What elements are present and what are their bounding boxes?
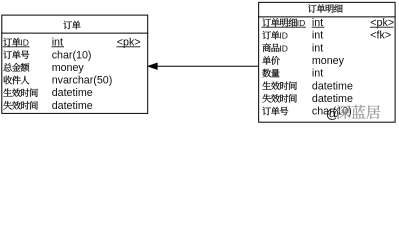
column row 订单ID int <pk> xyxy=(3,38,20,47)
svg-text:ID: ID xyxy=(20,38,29,48)
reference arrow line (订单明细 to 订单) xyxy=(150,65,259,67)
column row 生效时间 datetime xyxy=(3,88,37,97)
column row 失效时间 datetime xyxy=(3,101,37,110)
column row 订单号 char(10) xyxy=(262,107,288,116)
svg-text:datetime: datetime xyxy=(52,100,93,112)
svg-text:int: int xyxy=(312,30,323,42)
table 订单明细 (OrderDetail) outer border xyxy=(259,2,395,122)
column row 单价 money xyxy=(262,56,279,65)
svg-text:ID: ID xyxy=(279,43,288,53)
svg-text:int: int xyxy=(312,68,323,80)
column row 订单号 char(10) xyxy=(3,50,29,59)
table 订单明细 header separator line xyxy=(258,16,395,18)
svg-text:int: int xyxy=(312,42,323,54)
svg-text:ID: ID xyxy=(297,18,306,28)
column row 订单明细ID int <pk> xyxy=(262,18,297,27)
svg-text:char(10): char(10) xyxy=(52,49,92,61)
column row 总金额 money xyxy=(3,63,29,72)
column row 订单ID int <fk> xyxy=(262,31,279,40)
svg-text:datetime: datetime xyxy=(52,87,93,99)
svg-text:datetime: datetime xyxy=(312,93,353,105)
reference arrowhead xyxy=(147,63,158,70)
svg-text:datetime: datetime xyxy=(312,80,353,92)
column row 商品ID int xyxy=(262,43,279,52)
svg-text:<fk>: <fk> xyxy=(370,30,391,42)
svg-text:ID: ID xyxy=(279,31,288,41)
table 订单 header separator line xyxy=(1,32,148,34)
table 订单明细 title xyxy=(308,4,343,13)
column row 数量 int xyxy=(262,69,279,78)
table 订单 title xyxy=(63,21,80,30)
svg-text:money: money xyxy=(312,55,345,67)
ER diagram: two PowerDesigner tables linked by reference arrow xyxy=(0,0,399,124)
svg-text:money: money xyxy=(52,62,85,74)
table 订单 (Order) outer border xyxy=(2,15,148,113)
column row 失效时间 datetime xyxy=(262,94,296,103)
svg-text:@: @ xyxy=(326,106,339,121)
svg-text:nvarchar(50): nvarchar(50) xyxy=(52,75,113,87)
column row 收件人 nvarchar(50) xyxy=(4,76,30,85)
column row 生效时间 datetime xyxy=(262,81,296,90)
